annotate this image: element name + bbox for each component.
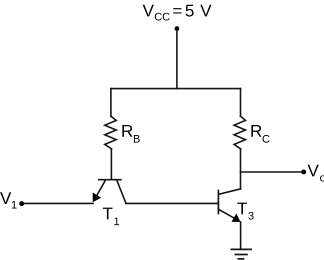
label Vo [308, 165, 324, 182]
ground [231, 249, 251, 259]
node VCC (supply dot) [175, 26, 180, 31]
label RB [122, 125, 139, 143]
wire VCC dot to top rail [176, 29, 178, 89]
wire T1 collector to T3 base [126, 202, 218, 204]
label T3 [237, 203, 253, 220]
wire output node to Vo [241, 171, 304, 173]
wire V1 to T1 [22, 202, 93, 204]
transistor T1 [93, 180, 126, 204]
transistor T3 [218, 189, 240, 222]
label RC [251, 125, 269, 143]
label VCC = 5 V [143, 5, 212, 21]
node V1 (input dot) [19, 201, 24, 206]
label T1 [103, 208, 119, 226]
wire top rail [111, 88, 241, 90]
wire right branch down to RC [240, 89, 242, 117]
wire RC to T3 collector [240, 149, 242, 189]
label V1 [0, 192, 17, 208]
node Vo (output dot) [301, 169, 306, 174]
wire left branch down to RB [110, 89, 112, 117]
resistor RC [234, 116, 245, 149]
wire T3 emitter to ground [240, 222, 242, 250]
wire RB to T1 base [110, 149, 112, 179]
resistor RB [105, 116, 116, 149]
